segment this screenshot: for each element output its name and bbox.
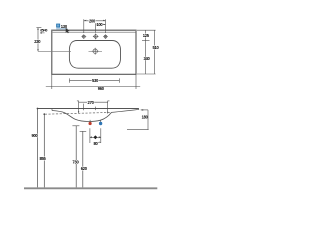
elevation: tapered right end line [112, 109, 140, 112]
hot water supply dot (red) [89, 122, 92, 125]
svg-text:530: 530 [92, 78, 99, 83]
elevation: hidden underside dashed line [45, 112, 112, 114]
height dimension 730 [75, 126, 77, 188]
dimension 180 (right) [127, 110, 149, 130]
dimension 100 [96, 23, 106, 32]
plan view: bowl outline [69, 41, 120, 69]
height dimension 900 [37, 109, 39, 188]
floor line [24, 187, 157, 189]
plan view: thick back edge line [52, 29, 136, 31]
plan view: drain centerline (horizontal) [38, 50, 71, 52]
right side dimension 125 [137, 30, 156, 74]
svg-text:855: 855 [40, 156, 47, 161]
supply dots ticks [89, 120, 91, 123]
mouse cursor [66, 28, 70, 33]
blue link icon [56, 24, 60, 28]
plan view: drain with cross marks [92, 48, 99, 55]
svg-text:620: 620 [81, 166, 88, 171]
elevation: tap hole tick marks [82, 104, 84, 111]
svg-text:960: 960 [98, 86, 105, 91]
svg-text:180: 180 [142, 114, 149, 119]
dimension 200 (tap holes spread) [84, 19, 106, 33]
svg-text:730: 730 [72, 160, 79, 165]
plan view: tap hole 3 (right) [103, 34, 108, 39]
svg-text:510: 510 [152, 45, 159, 50]
elevation: top edge line [38, 108, 139, 110]
elevation: bowl bulge profile [52, 111, 112, 122]
plan view: inner back ledge line [52, 32, 135, 34]
svg-text:340: 340 [143, 56, 150, 61]
plan view: tap hole 2 (center, diamond) [93, 34, 99, 40]
elevation: left end small edge [51, 109, 53, 111]
dimension 80 bracket [90, 128, 101, 143]
svg-text:100: 100 [96, 22, 103, 27]
svg-text:80: 80 [93, 141, 98, 146]
svg-text:900: 900 [32, 133, 39, 138]
dimension 960 (total width) [46, 75, 140, 90]
height dimension 855 [43, 114, 45, 187]
svg-text:230: 230 [34, 39, 41, 44]
svg-text:200: 200 [89, 18, 96, 23]
dimension 270 [77, 101, 110, 114]
drain outlet diamond [93, 135, 97, 139]
svg-text:270: 270 [88, 100, 95, 105]
right side dimension 510 [137, 30, 156, 74]
dimension 230 vertical line with arrows [36, 28, 41, 52]
plan view: tap hole 1 (left) [81, 34, 86, 39]
svg-text:65/40: 65/40 [40, 29, 47, 33]
dimension 530 (bowl width) [70, 78, 120, 82]
svg-text:130: 130 [61, 24, 68, 29]
svg-text:125: 125 [143, 33, 150, 38]
plan view: basin top outline rectangle [52, 30, 136, 74]
height dimension 620 [82, 131, 84, 187]
cold water supply dot (blue) [99, 122, 102, 125]
